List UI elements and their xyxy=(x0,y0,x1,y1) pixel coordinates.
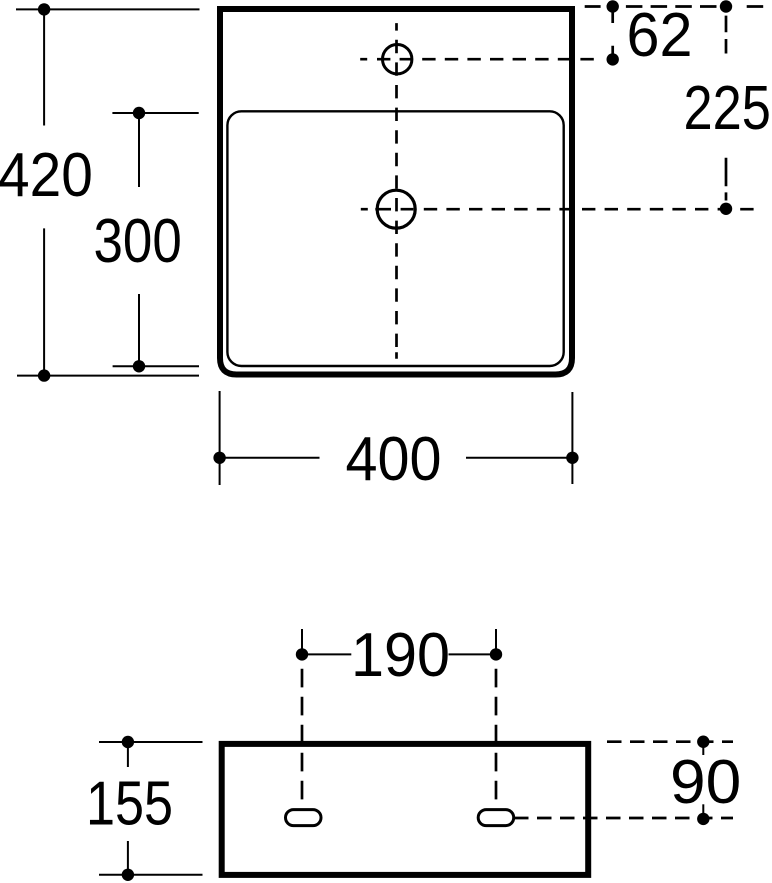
svg-text:300: 300 xyxy=(94,207,182,276)
420 dimension line upper segment xyxy=(43,9,45,125)
300 dimension line upper segment xyxy=(138,113,140,187)
300 dimension dot bottom xyxy=(133,360,145,372)
155 extension line bottom xyxy=(99,874,203,876)
90 dimension line lower segment xyxy=(702,804,704,819)
400 dimension line right segment xyxy=(466,457,572,459)
svg-text:420: 420 xyxy=(0,141,93,210)
svg-text:400: 400 xyxy=(346,425,442,494)
190 tick right xyxy=(495,629,497,654)
400 extension line right xyxy=(571,392,573,484)
420 dimension line lower segment xyxy=(43,228,45,375)
faucet horizontal centerline xyxy=(360,58,594,61)
190 dimension line left segment xyxy=(302,653,351,655)
basin inner rim xyxy=(227,111,563,366)
basin outer outline (top view) xyxy=(220,9,572,375)
90 hole centerline dashed xyxy=(514,817,733,820)
90 dimension dot bottom xyxy=(697,813,709,825)
400 extension line left xyxy=(219,391,221,485)
300 dimension dot top xyxy=(133,107,145,119)
155 dimension line lower segment xyxy=(127,841,129,875)
155 dimension dot bottom xyxy=(122,869,134,881)
190 tick left xyxy=(301,629,303,654)
300 dimension line lower segment xyxy=(138,294,140,366)
400 dimension dot left xyxy=(213,452,225,464)
svg-text:90: 90 xyxy=(670,748,741,817)
190 dimension dot right xyxy=(490,648,502,660)
155 dimension line upper segment xyxy=(127,742,129,767)
top dashed extension line xyxy=(585,5,764,8)
svg-text:225: 225 xyxy=(684,74,771,143)
62 dimension dot bottom xyxy=(607,53,619,65)
svg-text:190: 190 xyxy=(351,621,450,690)
155 dimension dot top xyxy=(122,736,134,748)
90 dimension dot top xyxy=(697,736,709,748)
faucet hole xyxy=(383,45,412,74)
225 dimension dashed line upper xyxy=(725,16,728,54)
90 top dashed line xyxy=(607,740,733,743)
225 dimension dot bottom xyxy=(720,203,732,215)
mounting hole left centerline xyxy=(301,669,304,800)
420 extension line top xyxy=(16,8,200,10)
drain horizontal centerline xyxy=(361,208,754,211)
225 dimension dot top xyxy=(720,0,732,12)
svg-text:155: 155 xyxy=(86,770,173,839)
62 dimension dot top xyxy=(607,0,619,12)
90 dimension line upper segment xyxy=(702,742,704,755)
225 dimension dashed line lower xyxy=(725,158,728,201)
mounting hole right xyxy=(478,810,514,826)
400 dimension dot right xyxy=(566,452,578,464)
mounting hole right centerline xyxy=(495,669,498,800)
drain hole xyxy=(377,190,415,228)
svg-text:62: 62 xyxy=(627,1,693,70)
vertical centerline xyxy=(395,23,398,359)
155 extension line top xyxy=(99,741,203,743)
190 dimension line right segment xyxy=(449,653,497,655)
300 extension line bottom xyxy=(113,365,199,367)
190 dimension dot left xyxy=(296,648,308,660)
side view outline xyxy=(222,744,589,875)
400 dimension line left segment xyxy=(220,457,320,459)
mounting hole left xyxy=(286,810,322,826)
62 dimension dashed line xyxy=(611,12,614,55)
420 dimension dot top xyxy=(38,3,50,15)
420 extension line bottom xyxy=(17,375,199,377)
420 dimension dot bottom xyxy=(38,369,50,381)
300 extension line top xyxy=(112,112,198,114)
